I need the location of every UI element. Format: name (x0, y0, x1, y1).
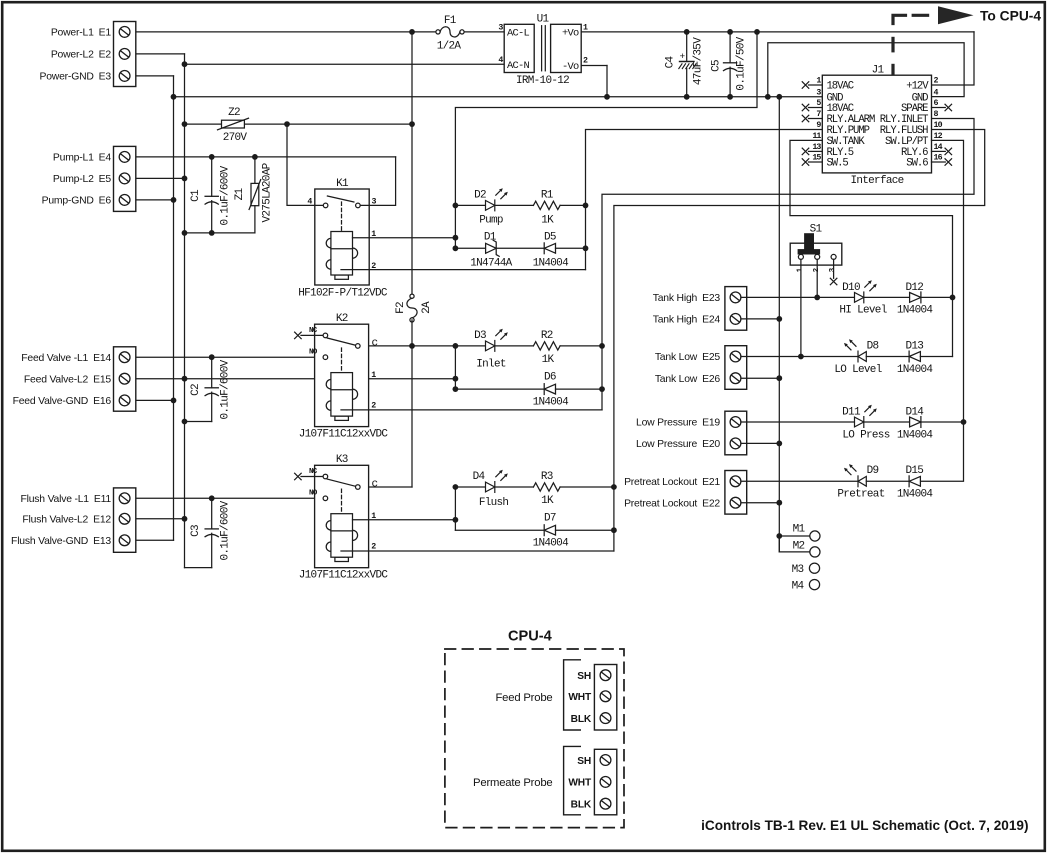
diode D13 1N4004 (866, 356, 909, 358)
power module U1 IRM-10-12 (504, 24, 534, 72)
To CPU-4 dashed link and arrow (893, 15, 928, 73)
wire K3 section left rail (454, 487, 456, 530)
svg-text:R1: R1 (541, 190, 554, 202)
svg-text:F2: F2 (395, 302, 407, 314)
LED D2 Pump indicator row (453, 203, 459, 209)
wire E15 Feed Valve-L2 row / K2 coil pin1 (130, 378, 455, 380)
diode D5 1N4004 (544, 243, 555, 254)
wire E6 to GND bus (130, 199, 174, 201)
K2 common contact (356, 344, 361, 349)
svg-text:1K: 1K (541, 495, 554, 507)
svg-text:To CPU-4: To CPU-4 (980, 8, 1041, 23)
svg-text:Feed Valve-L2 E15: Feed Valve-L2 E15 (24, 374, 112, 385)
relay K2 coil (326, 373, 357, 421)
svg-text:C1: C1 (190, 189, 202, 202)
K2 blade (327, 338, 355, 345)
K2 NC contact (295, 332, 302, 339)
fuse F1 (436, 27, 464, 37)
svg-text:C3: C3 (190, 525, 202, 537)
capacitor C4 47uF/35V (686, 32, 688, 62)
svg-text:AC-L: AC-L (507, 28, 529, 40)
wire E14 Feed Valve-L1 to K2 NO (130, 356, 323, 358)
wire S1 pin 2 to Tank High row (816, 259, 818, 297)
J1 pin 13 RLY.5 no-connect (809, 150, 823, 152)
svg-text:0.1uF/600V: 0.1uF/600V (220, 165, 232, 225)
svg-text:D14: D14 (905, 407, 924, 419)
wire E26 to GND bus (741, 377, 779, 379)
wire K1 right rail to J1 RLY.PUMP (586, 130, 823, 270)
LED D10 HI Level row (741, 296, 855, 298)
wire K3 coil pin 2 return (341, 550, 614, 552)
svg-text:D13: D13 (905, 340, 923, 352)
LED D9 Pretreat row (741, 480, 858, 482)
svg-text:M3: M3 (792, 564, 804, 576)
svg-text:Low Pressure E20: Low Pressure E20 (636, 439, 720, 450)
svg-text:D10: D10 (842, 282, 860, 294)
svg-text:12: 12 (934, 132, 943, 141)
terminal block E19-E20 (725, 411, 747, 455)
svg-text:NC: NC (309, 468, 318, 476)
svg-text:D8: D8 (867, 340, 879, 352)
wire K2 right rail to J1 RLY.INLET (602, 119, 974, 410)
wire E3 GND rail (130, 75, 174, 77)
svg-text:4: 4 (934, 88, 939, 97)
diode D12 1N4004 (864, 296, 910, 298)
svg-text:Low Pressure E19: Low Pressure E19 (636, 418, 720, 429)
svg-text:D3: D3 (474, 330, 486, 342)
wire -Vo drop to GND (581, 65, 607, 67)
svg-text:HF102F-P/T12VDC: HF102F-P/T12VDC (298, 288, 388, 300)
svg-text:8: 8 (934, 110, 939, 119)
svg-text:M4: M4 (792, 580, 805, 592)
svg-text:D6: D6 (544, 371, 556, 383)
LED D3 Inlet indicator row (453, 343, 459, 349)
varistor Z1 V275LA20AP (252, 154, 258, 160)
svg-text:0.1uF/600V: 0.1uF/600V (220, 359, 232, 419)
wire E20 to GND bus (741, 442, 779, 444)
Feed Probe terminal block SH/WHT/BLK (594, 665, 616, 731)
wire E16 to GND bus (130, 399, 174, 401)
diode D15 1N4004 (866, 480, 909, 482)
J1 pin 1 18VAC no-connect (809, 84, 823, 86)
mounting hole M1 (776, 533, 782, 539)
wire E11 Flush Valve-L1 to K3 NO (130, 497, 323, 499)
wire K1 coil pin 2 return (341, 269, 586, 271)
svg-text:Inlet: Inlet (476, 358, 506, 370)
resistor R1 1K (533, 201, 560, 209)
svg-text:1N4004: 1N4004 (533, 257, 570, 269)
varistor Z2 270V (182, 121, 188, 127)
svg-text:+Vo: +Vo (562, 28, 579, 40)
svg-text:1N4004: 1N4004 (533, 397, 570, 409)
mounting hole M3 (809, 563, 819, 573)
J1 pin 16 SW.6 no-connect (932, 161, 946, 163)
svg-text:J107F11C12xxVDC: J107F11C12xxVDC (299, 570, 389, 582)
wire C1/Z1 bottom rail to L2 bus (185, 232, 255, 234)
K2 NO contact (323, 355, 328, 360)
svg-text:Flush Valve -L1 E11: Flush Valve -L1 E11 (20, 494, 111, 505)
svg-text:F1: F1 (444, 15, 457, 27)
wire +12V drop to K1 rail (455, 32, 757, 248)
svg-text:10: 10 (934, 121, 943, 130)
wire S1 pin 1 to Tank Low row (800, 259, 802, 356)
svg-text:+: + (679, 51, 685, 62)
wire E13 Flush Valve-GND to GND bus (130, 539, 174, 541)
diode D6 1N4004 (455, 388, 544, 390)
svg-text:18VAC: 18VAC (827, 81, 854, 93)
wire junction E1/Z2 drop (409, 29, 415, 35)
svg-text:1K: 1K (542, 354, 555, 366)
svg-text:M2: M2 (793, 541, 805, 553)
svg-text:15: 15 (812, 154, 821, 163)
wire GND bus to E24/E26/E20/E22/M1/M2 (776, 94, 782, 100)
svg-text:Tank High E24: Tank High E24 (653, 315, 721, 326)
svg-text:2: 2 (934, 77, 939, 86)
terminal block E25-E26 (725, 346, 747, 390)
svg-text:2A: 2A (421, 301, 433, 314)
J1 pin 5 18VAC no-connect (809, 107, 823, 109)
wire +Vo +12V line (581, 31, 974, 33)
zener diode D1 1N4744A (453, 245, 459, 251)
svg-text:BLK: BLK (571, 714, 592, 725)
wire vertical E1 to Z2 line to fuse F2 (411, 32, 413, 296)
LED D11 LO Press row (741, 421, 855, 423)
wire K2 coil pin1 junction (453, 376, 459, 382)
capacitor C5 0.1uF/50V (729, 32, 731, 63)
svg-text:D1: D1 (484, 232, 497, 244)
wire K2 coil pin 2 return (341, 409, 602, 411)
K3 blade (327, 479, 355, 486)
svg-text:Flush Valve-GND E13: Flush Valve-GND E13 (11, 536, 111, 547)
svg-text:WHT: WHT (568, 692, 592, 703)
svg-text:LO Press: LO Press (842, 429, 889, 441)
svg-text:Pretreat Lockout E22: Pretreat Lockout E22 (624, 498, 720, 509)
svg-text:D7: D7 (544, 512, 556, 524)
svg-text:iControls TB-1 Rev. E1 UL Sche: iControls TB-1 Rev. E1 UL Schematic (Oct… (701, 818, 1028, 833)
J1 pin 6 SPARE no-connect (932, 107, 946, 109)
svg-text:R3: R3 (541, 471, 553, 483)
svg-text:Permeate Probe: Permeate Probe (473, 777, 552, 789)
svg-text:SW.6: SW.6 (906, 158, 928, 170)
wire K3 coil pin 1 to rail (353, 519, 456, 521)
wire K3 right rail to J1 RLY.FLUSH (614, 130, 985, 552)
svg-text:J107F11C12xxVDC: J107F11C12xxVDC (299, 429, 389, 441)
wire +12V to J1 pin2 (932, 32, 975, 85)
svg-text:Pump-L1 E4: Pump-L1 E4 (53, 153, 111, 164)
wire E12 Flush Valve-L2 to L2 bus (130, 518, 185, 520)
svg-text:D11: D11 (842, 407, 861, 419)
wire E24 to GND bus (741, 318, 779, 320)
mounting hole M2 (779, 536, 810, 552)
svg-text:Flush: Flush (479, 497, 509, 509)
wire J1 SW.TANK to tank level rows (790, 140, 953, 356)
J1 pin 14 RLY.6 no-connect (932, 150, 946, 152)
resistor R2 1K (533, 342, 560, 350)
svg-text:NO: NO (309, 490, 318, 498)
wire E5 to L2 bus (130, 177, 185, 179)
svg-text:Feed Probe: Feed Probe (495, 692, 552, 704)
svg-text:2: 2 (371, 401, 376, 410)
svg-text:LO Level: LO Level (834, 364, 881, 376)
wire Z2 to K1 pin 4 (284, 121, 290, 127)
wire E22 to GND bus (741, 502, 779, 504)
svg-text:R2: R2 (541, 330, 553, 342)
svg-text:1: 1 (816, 77, 821, 86)
svg-text:C4: C4 (665, 56, 677, 69)
terminal block E1-E3 (114, 22, 136, 87)
svg-text:Pump-L2 E5: Pump-L2 E5 (53, 174, 111, 185)
svg-text:1N4004: 1N4004 (897, 489, 934, 501)
svg-text:D15: D15 (905, 465, 923, 477)
capacitor C2 0.1uF/600V (209, 354, 215, 360)
svg-text:Pretreat: Pretreat (837, 489, 884, 501)
mounting hole M4 (809, 580, 819, 590)
wire E4 Pump-L1 to K1 pin 3 (130, 156, 396, 158)
svg-text:c: c (372, 479, 378, 491)
wire J1 SW.LP/PT to pressure rows (920, 140, 963, 481)
terminal block E11-E13 (114, 488, 136, 552)
wire GND return J1 pin4 (768, 43, 964, 97)
svg-text:C5: C5 (711, 60, 723, 72)
svg-text:Tank High E23: Tank High E23 (653, 293, 721, 304)
svg-text:NC: NC (309, 327, 318, 335)
svg-text:Power-L2 E2: Power-L2 E2 (51, 50, 112, 61)
svg-text:9: 9 (816, 121, 821, 130)
svg-text:K2: K2 (336, 313, 348, 325)
diode D7 1N4004 (455, 529, 544, 531)
terminal block E14-E16 (114, 347, 136, 411)
svg-text:SH: SH (577, 756, 591, 767)
svg-text:SW.5: SW.5 (827, 158, 849, 170)
svg-text:CPU-4: CPU-4 (508, 629, 553, 645)
svg-text:NO: NO (309, 349, 318, 357)
svg-text:3: 3 (816, 88, 821, 97)
svg-text:3: 3 (498, 24, 503, 33)
svg-text:K3: K3 (336, 454, 348, 466)
svg-text:c: c (372, 338, 378, 350)
wire S1 pin 3 no-connect (833, 259, 835, 278)
svg-text:C2: C2 (190, 384, 202, 396)
terminal block E23-E24 (725, 287, 747, 331)
svg-text:1N4004: 1N4004 (533, 538, 570, 550)
svg-text:7: 7 (816, 110, 821, 119)
K3 NO contact (323, 496, 328, 501)
svg-text:1/2A: 1/2A (437, 41, 462, 53)
svg-text:D12: D12 (905, 282, 923, 294)
svg-text:1K: 1K (541, 214, 554, 226)
LED D8 LO Level row (741, 356, 858, 358)
svg-text:M1: M1 (793, 524, 806, 536)
K3 NC contact (295, 473, 302, 480)
svg-text:Pump: Pump (479, 214, 503, 226)
svg-text:14: 14 (934, 143, 943, 152)
svg-text:Z2: Z2 (228, 107, 240, 119)
svg-text:+12V: +12V (906, 81, 929, 93)
svg-text:SH: SH (577, 671, 591, 682)
svg-text:D9: D9 (867, 465, 879, 477)
svg-text:270V: 270V (223, 132, 248, 144)
svg-text:1N4004: 1N4004 (897, 429, 934, 441)
svg-text:Tank Low E26: Tank Low E26 (655, 374, 721, 385)
terminal block E4-E6 (114, 146, 136, 211)
LED D4 Flush indicator row (453, 484, 459, 490)
Permeate Probe bracket (564, 746, 581, 814)
svg-text:U1: U1 (537, 14, 550, 26)
svg-text:-Vo: -Vo (562, 61, 579, 73)
Feed Probe bracket (564, 660, 581, 730)
svg-text:2: 2 (371, 543, 376, 552)
svg-text:Z1: Z1 (234, 188, 246, 201)
svg-text:K1: K1 (336, 178, 349, 190)
wire E2 to AC-N (130, 53, 185, 55)
terminal block E21-E22 (725, 471, 747, 515)
svg-text:Power-L1 E1: Power-L1 E1 (51, 28, 112, 39)
svg-text:2: 2 (583, 57, 588, 66)
J1 pin 7 RLY.ALARM no-connect (809, 118, 823, 120)
resistor R3 1K (533, 483, 560, 491)
wire K2 section left rail (454, 346, 456, 389)
fuse F2 2A (407, 294, 417, 322)
svg-text:IRM-10-12: IRM-10-12 (516, 75, 569, 87)
Permeate Probe terminal block SH/WHT/BLK (594, 749, 616, 815)
svg-text:AC-N: AC-N (507, 60, 529, 72)
svg-text:1: 1 (583, 24, 588, 33)
svg-text:11: 11 (812, 132, 821, 141)
J1 pin 15 SW.5 no-connect (809, 161, 823, 163)
svg-text:Pretreat Lockout E21: Pretreat Lockout E21 (624, 477, 720, 488)
K3 common contact (356, 485, 361, 490)
svg-text:HI Level: HI Level (839, 304, 886, 316)
svg-text:Tank Low E25: Tank Low E25 (655, 352, 721, 363)
wire F2 to K2 common and K3 common (411, 320, 413, 487)
svg-text:13: 13 (812, 143, 821, 152)
svg-text:WHT: WHT (568, 778, 592, 789)
relay K1 coil (326, 232, 357, 280)
svg-text:0.1uF/50V: 0.1uF/50V (736, 36, 748, 90)
capacitor C1 0.1uF/600V (209, 154, 215, 160)
svg-text:1N4004: 1N4004 (897, 364, 934, 376)
svg-text:Power-GND E3: Power-GND E3 (39, 72, 111, 83)
svg-text:47uF/35V: 47uF/35V (693, 37, 705, 85)
svg-text:Feed Valve -L1 E14: Feed Valve -L1 E14 (21, 353, 111, 364)
wire E1 to fuse F1 and AC-L (130, 31, 438, 33)
svg-text:V275LA20AP: V275LA20AP (262, 162, 274, 222)
svg-text:16: 16 (934, 154, 943, 163)
svg-text:D2: D2 (474, 190, 486, 202)
svg-text:1N4744A: 1N4744A (470, 257, 512, 269)
svg-text:BLK: BLK (571, 800, 592, 811)
svg-text:Pump-GND E6: Pump-GND E6 (42, 196, 112, 207)
svg-text:D4: D4 (473, 471, 486, 483)
svg-text:Interface: Interface (850, 175, 903, 187)
wire K1 coil pin 1 to rail (353, 237, 456, 239)
svg-text:Flush Valve-L2 E12: Flush Valve-L2 E12 (22, 514, 111, 525)
svg-text:1N4004: 1N4004 (897, 304, 934, 316)
svg-text:Feed Valve-GND E16: Feed Valve-GND E16 (13, 396, 112, 407)
svg-text:6: 6 (934, 99, 939, 108)
svg-text:D5: D5 (544, 232, 556, 244)
capacitor C3 0.1uF/600V (209, 495, 215, 501)
relay K3 coil (326, 514, 357, 562)
svg-text:0.1uF/600V: 0.1uF/600V (220, 500, 232, 560)
diode D14 1N4004 (864, 421, 910, 423)
svg-text:5: 5 (816, 99, 821, 108)
